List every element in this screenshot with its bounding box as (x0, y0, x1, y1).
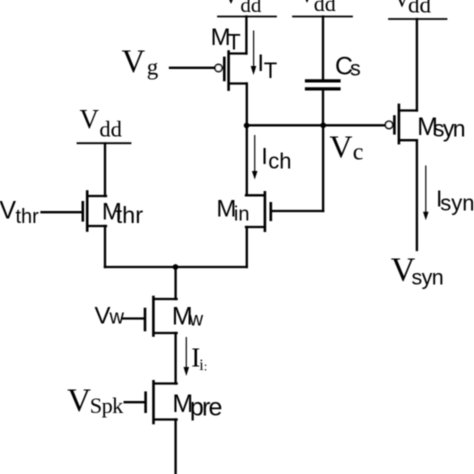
svg-text:dd: dd (99, 116, 122, 141)
svg-text:T: T (227, 29, 240, 54)
svg-text:V: V (0, 196, 16, 224)
svg-text:T: T (264, 58, 277, 83)
svg-text:V: V (299, 0, 315, 7)
svg-text:syn: syn (412, 266, 444, 290)
svg-text:V: V (223, 0, 239, 8)
svg-text:in: in (234, 204, 250, 226)
svg-text:I: I (261, 143, 267, 169)
svg-text:V: V (80, 104, 100, 134)
svg-text:V: V (122, 44, 146, 80)
svg-text:ch: ch (268, 148, 291, 173)
svg-text:w: w (109, 307, 125, 329)
svg-text:Spk: Spk (90, 393, 124, 418)
svg-text:g: g (147, 55, 159, 80)
svg-text:thr: thr (16, 206, 40, 228)
svg-text:w: w (188, 309, 203, 330)
svg-text:dd: dd (408, 0, 432, 18)
svg-text:thr: thr (116, 202, 144, 228)
svg-text:c: c (353, 139, 364, 165)
svg-text:dd: dd (240, 0, 262, 17)
svg-text:syn: syn (433, 115, 465, 141)
svg-text:syn: syn (440, 190, 474, 215)
svg-text:V: V (95, 303, 111, 330)
svg-text::: : (204, 358, 208, 373)
svg-text:s: s (350, 56, 361, 80)
svg-text:V: V (329, 129, 352, 165)
svg-text:pre: pre (190, 393, 222, 421)
svg-text:V: V (67, 383, 91, 419)
svg-text:dd: dd (314, 0, 336, 16)
